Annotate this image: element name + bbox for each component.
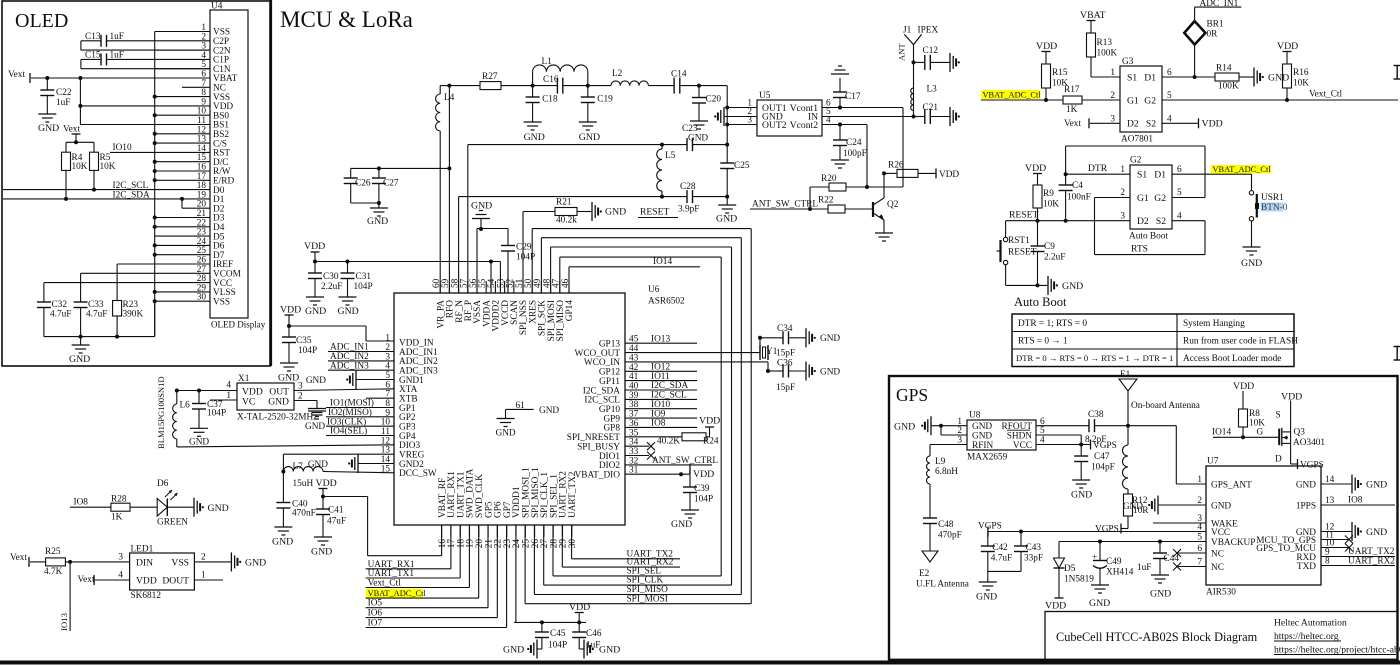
svg-text:R20: R20 <box>821 174 837 184</box>
svg-text:C17: C17 <box>845 92 861 102</box>
svg-text:C49: C49 <box>1106 557 1122 567</box>
svg-text:C26: C26 <box>355 179 371 189</box>
svg-text:GND: GND <box>539 406 559 416</box>
svg-text:R28: R28 <box>111 495 127 505</box>
svg-text:4: 4 <box>118 571 123 581</box>
svg-text:VCC: VCC <box>1013 441 1032 451</box>
svg-text:OLED Display: OLED Display <box>211 320 266 330</box>
svg-text:Heltec Automation: Heltec Automation <box>1274 618 1347 629</box>
svg-text:GND: GND <box>820 367 840 377</box>
svg-text:UART_TX2: UART_TX2 <box>1348 547 1395 557</box>
svg-text:GND: GND <box>716 214 737 225</box>
svg-text:D2: D2 <box>1127 119 1139 130</box>
svg-text:1uF: 1uF <box>110 50 124 60</box>
svg-text:G1: G1 <box>1127 95 1139 106</box>
svg-text:C31: C31 <box>356 272 372 282</box>
svg-text:U.FL Antenna: U.FL Antenna <box>916 580 969 590</box>
svg-text:1K: 1K <box>111 513 123 523</box>
svg-text:C30: C30 <box>323 272 339 282</box>
svg-text:GND: GND <box>688 134 708 144</box>
svg-text:DIN: DIN <box>136 557 153 568</box>
svg-text:4.7uF: 4.7uF <box>50 310 71 320</box>
svg-text:Vext: Vext <box>78 575 95 585</box>
svg-text:IO13: IO13 <box>651 334 670 344</box>
svg-text:VDD: VDD <box>1202 119 1223 130</box>
svg-text:4.7uF: 4.7uF <box>86 310 107 320</box>
svg-text:GND: GND <box>367 216 388 227</box>
svg-text:G2: G2 <box>1154 193 1166 204</box>
svg-text:GND: GND <box>306 376 326 386</box>
svg-text:R14: R14 <box>1216 64 1232 74</box>
svg-text:VDD: VDD <box>699 416 720 427</box>
svg-text:Run from user code in FLASH: Run from user code in FLASH <box>1183 336 1298 347</box>
svg-text:GND: GND <box>1089 598 1110 609</box>
svg-text:X-TAL-2520-32MHz: X-TAL-2520-32MHz <box>237 413 317 423</box>
svg-text:IO5: IO5 <box>368 599 383 609</box>
svg-text:100nF: 100nF <box>1067 193 1091 203</box>
svg-text:ANT: ANT <box>897 43 907 61</box>
svg-text:AO7801: AO7801 <box>1121 135 1153 145</box>
svg-text:VDD: VDD <box>1045 601 1066 612</box>
svg-text:GND: GND <box>894 421 915 432</box>
svg-text:Vext_Ctl: Vext_Ctl <box>1309 90 1342 100</box>
svg-text:MAX2659: MAX2659 <box>967 453 1008 463</box>
svg-text:C36: C36 <box>777 359 793 369</box>
svg-text:L1: L1 <box>542 57 553 67</box>
svg-text:40.2k: 40.2k <box>556 216 577 226</box>
svg-text:C32: C32 <box>52 300 68 310</box>
svg-text:DOUT: DOUT <box>162 575 189 586</box>
svg-text:VGPS: VGPS <box>978 522 1002 532</box>
svg-text:C12: C12 <box>923 46 939 56</box>
svg-text:104pF: 104pF <box>1091 463 1115 473</box>
svg-text:VDD: VDD <box>693 469 714 480</box>
svg-text:SHDN: SHDN <box>1007 431 1033 441</box>
svg-text:GND: GND <box>311 547 332 558</box>
svg-text:MCU & LoRa: MCU & LoRa <box>280 7 413 32</box>
svg-text:IO8: IO8 <box>74 498 89 508</box>
svg-text:VDD: VDD <box>136 575 157 586</box>
svg-text:GND: GND <box>471 201 492 212</box>
svg-text:GND: GND <box>1366 480 1387 491</box>
svg-text:R16: R16 <box>1293 68 1309 78</box>
svg-text:C41: C41 <box>328 506 344 516</box>
svg-text:NC: NC <box>1211 549 1224 559</box>
svg-text:GND: GND <box>1150 589 1171 600</box>
svg-text:https://heltec.org: https://heltec.org <box>1274 631 1339 642</box>
svg-text:R27: R27 <box>482 72 498 82</box>
svg-text:G: G <box>1257 428 1264 438</box>
svg-text:GND: GND <box>245 558 266 569</box>
svg-text:ASR6502: ASR6502 <box>648 297 685 307</box>
svg-text:DTR = 0 → RTS = 0 → RTS = 1 →: DTR = 0 → RTS = 0 → RTS = 1 → DTR = 1 <box>1016 353 1173 363</box>
svg-text:47uF: 47uF <box>327 517 346 527</box>
svg-text:4: 4 <box>1177 211 1182 221</box>
svg-text:SK6812: SK6812 <box>131 591 162 601</box>
svg-text:U5: U5 <box>759 91 771 101</box>
svg-text:D1: D1 <box>1144 72 1156 83</box>
svg-text:U8: U8 <box>969 411 981 421</box>
svg-text:GND: GND <box>503 645 524 656</box>
svg-text:VC: VC <box>242 397 255 408</box>
svg-text:DTR: DTR <box>1088 163 1108 174</box>
svg-text:C24: C24 <box>846 138 862 148</box>
svg-text:VDD: VDD <box>939 170 959 180</box>
svg-text:System Hanging: System Hanging <box>1183 319 1245 329</box>
svg-text:C28: C28 <box>680 182 696 192</box>
svg-text:G3: G3 <box>1122 57 1134 67</box>
svg-text:GND: GND <box>524 132 545 143</box>
svg-text:GND: GND <box>268 397 289 408</box>
svg-text:Auto Boot: Auto Boot <box>1129 232 1168 242</box>
svg-text:GND: GND <box>305 422 325 432</box>
svg-text:IO6: IO6 <box>368 609 383 619</box>
svg-text:C34: C34 <box>777 324 793 334</box>
svg-text:R26: R26 <box>888 161 904 171</box>
svg-text:C46: C46 <box>586 629 602 639</box>
svg-text:BTN-0: BTN-0 <box>1261 203 1288 213</box>
svg-text:1uF: 1uF <box>110 32 124 42</box>
svg-text:G2: G2 <box>1144 95 1156 106</box>
svg-text:0R: 0R <box>1207 30 1219 40</box>
svg-text:C39: C39 <box>694 484 710 494</box>
svg-text:GND: GND <box>1211 501 1231 511</box>
svg-text:IO7: IO7 <box>368 619 383 629</box>
svg-text:GND: GND <box>278 373 299 384</box>
svg-text:C29: C29 <box>516 243 532 253</box>
svg-text:VDD: VDD <box>1233 381 1254 392</box>
svg-text:L6: L6 <box>180 401 191 411</box>
svg-text:R25: R25 <box>45 547 61 557</box>
svg-text:VGPS: VGPS <box>1300 461 1324 471</box>
svg-text:+: + <box>1092 553 1097 563</box>
svg-text:VBAT_DIO: VBAT_DIO <box>575 471 621 481</box>
svg-text:C48: C48 <box>938 520 954 530</box>
svg-text:GND: GND <box>1268 73 1289 84</box>
svg-text:R23: R23 <box>123 300 139 310</box>
svg-text:GND: GND <box>976 592 997 603</box>
svg-text:UART_TX1: UART_TX1 <box>368 569 415 579</box>
svg-text:1uF: 1uF <box>1137 563 1151 573</box>
svg-text:30: 30 <box>568 539 578 549</box>
svg-text:VSS: VSS <box>171 557 189 568</box>
svg-text:C4: C4 <box>1072 181 1083 191</box>
svg-text:100K: 100K <box>1097 49 1118 59</box>
svg-text:IPEX: IPEX <box>918 26 939 36</box>
svg-text:Vext_Ctl: Vext_Ctl <box>368 579 401 589</box>
svg-text:C43: C43 <box>1026 543 1042 553</box>
svg-text:C16: C16 <box>543 75 559 85</box>
svg-text:IO4(SEL): IO4(SEL) <box>330 426 367 437</box>
svg-text:Vext: Vext <box>1064 119 1081 129</box>
svg-text:GPS_ANT: GPS_ANT <box>1211 480 1252 490</box>
svg-text:UART_RX2: UART_RX2 <box>1348 557 1395 567</box>
svg-text:C35: C35 <box>296 336 312 346</box>
svg-text:2.2uF: 2.2uF <box>321 282 342 292</box>
svg-text:ANT_SW_CTRL: ANT_SW_CTRL <box>752 200 818 210</box>
svg-text:C27: C27 <box>383 179 399 189</box>
svg-text:C18: C18 <box>542 95 558 105</box>
svg-text:GND: GND <box>820 334 840 344</box>
svg-text:GND: GND <box>1123 502 1143 512</box>
svg-text:10K: 10K <box>72 162 88 172</box>
svg-text:Access Boot Loader mode: Access Boot Loader mode <box>1183 354 1281 364</box>
svg-text:2.2uF: 2.2uF <box>1044 253 1065 263</box>
svg-text:C13: C13 <box>85 32 101 42</box>
svg-text:RFIN: RFIN <box>972 441 993 451</box>
svg-text:GND: GND <box>338 306 359 317</box>
svg-text:RST1: RST1 <box>1008 236 1030 246</box>
svg-text:IO13: IO13 <box>59 612 69 631</box>
svg-text:VDD: VDD <box>1277 41 1298 52</box>
svg-text:R24: R24 <box>703 436 719 446</box>
svg-text:10K: 10K <box>1293 79 1309 89</box>
svg-text:VDD: VDD <box>304 241 325 252</box>
svg-text:C15: C15 <box>85 50 101 60</box>
svg-text:Q3: Q3 <box>1294 428 1306 438</box>
svg-text:AIR530: AIR530 <box>1206 588 1236 598</box>
svg-text:BR1: BR1 <box>1207 20 1224 30</box>
svg-text:GND: GND <box>599 645 620 656</box>
svg-text:GND: GND <box>1071 490 1092 501</box>
svg-text:L3: L3 <box>927 85 938 95</box>
svg-text:D: D <box>1275 455 1282 465</box>
svg-text:Vcont2: Vcont2 <box>790 120 818 131</box>
svg-text:VSS: VSS <box>213 297 230 307</box>
svg-text:OLED: OLED <box>15 10 68 32</box>
svg-text:GPS: GPS <box>896 385 928 405</box>
svg-text:U7: U7 <box>1207 457 1219 467</box>
svg-text:3.9pF: 3.9pF <box>678 205 699 215</box>
svg-text:2: 2 <box>1120 188 1125 198</box>
svg-text:100pF: 100pF <box>843 149 867 159</box>
svg-text:10K: 10K <box>1043 200 1059 210</box>
svg-text:1uF: 1uF <box>586 641 600 651</box>
svg-text:D2: D2 <box>1137 216 1149 227</box>
svg-text:ADC_IN3: ADC_IN3 <box>330 361 369 371</box>
svg-text:C14: C14 <box>671 69 687 79</box>
svg-text:GND: GND <box>1366 527 1387 538</box>
svg-text:C23: C23 <box>682 124 698 134</box>
svg-text:1: 1 <box>201 571 206 581</box>
svg-text:1uF: 1uF <box>56 98 70 108</box>
svg-text:IO2(MISO): IO2(MISO) <box>328 407 372 418</box>
svg-text:U4: U4 <box>211 2 223 12</box>
svg-text:C19: C19 <box>597 95 613 105</box>
svg-text:GND: GND <box>671 519 692 530</box>
svg-text:VDD: VDD <box>1281 392 1302 403</box>
svg-text:RESET: RESET <box>1008 248 1037 258</box>
svg-text:100K: 100K <box>1218 82 1239 92</box>
svg-text:L7: L7 <box>293 462 304 472</box>
svg-text:VGPS: VGPS <box>1093 441 1117 451</box>
svg-text:D5: D5 <box>1064 564 1076 574</box>
svg-text:G2: G2 <box>1130 156 1142 166</box>
svg-text:VBACKUP: VBACKUP <box>1211 538 1255 548</box>
svg-text:GND: GND <box>1296 480 1316 490</box>
svg-text:GND: GND <box>189 438 209 448</box>
svg-text:E2: E2 <box>919 569 930 579</box>
svg-text:15uH: 15uH <box>293 479 314 489</box>
svg-text:C47: C47 <box>1094 452 1110 462</box>
svg-text:104P: 104P <box>354 282 373 292</box>
svg-text:390K: 390K <box>123 310 144 320</box>
svg-text:ADC_IN1: ADC_IN1 <box>1200 0 1239 9</box>
svg-text:C45: C45 <box>550 629 566 639</box>
svg-text:Vext: Vext <box>10 553 27 563</box>
svg-text:R21: R21 <box>556 198 572 208</box>
svg-text:X1: X1 <box>238 374 250 384</box>
svg-text:C38: C38 <box>1088 410 1104 420</box>
svg-text:VDD: VDD <box>569 602 590 613</box>
svg-text:E1: E1 <box>1120 370 1131 380</box>
svg-text:RESET: RESET <box>1009 210 1038 221</box>
svg-text:40.2K: 40.2K <box>657 436 680 446</box>
svg-text:USR1: USR1 <box>1261 193 1284 203</box>
svg-text:CubeCell HTCC-AB02S Block Diag: CubeCell HTCC-AB02S Block Diagram <box>1056 630 1258 644</box>
svg-text:AO3401: AO3401 <box>1293 438 1325 448</box>
svg-text:SPI_MOSI: SPI_MOSI <box>627 594 668 604</box>
svg-text:R17: R17 <box>1064 85 1080 95</box>
svg-text:GND: GND <box>208 503 229 514</box>
svg-text:1PPS: 1PPS <box>1296 501 1316 511</box>
svg-text:IO14: IO14 <box>1212 428 1231 438</box>
svg-text:RESET: RESET <box>640 207 669 218</box>
svg-text:IO10: IO10 <box>113 143 132 153</box>
svg-text:C42: C42 <box>992 543 1008 553</box>
svg-text:1N5819: 1N5819 <box>1064 575 1094 585</box>
svg-text:R15: R15 <box>1052 68 1068 78</box>
svg-text:D6: D6 <box>157 479 169 489</box>
svg-text:S2: S2 <box>1146 119 1156 130</box>
svg-text:1: 1 <box>1120 165 1125 175</box>
svg-text:UART_TX2: UART_TX2 <box>568 471 578 518</box>
svg-text:Vext: Vext <box>8 70 25 80</box>
svg-text:4: 4 <box>226 381 231 391</box>
svg-text:C9: C9 <box>1044 242 1055 252</box>
svg-text:VDD: VDD <box>316 478 337 489</box>
svg-text:15pF: 15pF <box>776 349 795 359</box>
svg-text:S1: S1 <box>1127 72 1137 83</box>
svg-text:R9: R9 <box>1043 189 1054 199</box>
svg-text:VBAT_ADC_Ctl: VBAT_ADC_Ctl <box>368 589 427 598</box>
svg-text:10K: 10K <box>100 162 116 172</box>
svg-text:https://heltec.org/project/htc: https://heltec.org/project/htcc-ab02s <box>1274 645 1400 656</box>
svg-text:470pF: 470pF <box>938 531 962 541</box>
svg-text:GND: GND <box>69 354 90 365</box>
svg-text:VGPS: VGPS <box>1095 525 1119 535</box>
svg-text:C44: C44 <box>1164 554 1180 564</box>
svg-text:GP14: GP14 <box>565 300 575 322</box>
svg-text:C21: C21 <box>923 103 939 113</box>
svg-text:1K: 1K <box>1066 105 1078 115</box>
svg-text:C33: C33 <box>88 300 104 310</box>
svg-text:IO14: IO14 <box>653 257 672 267</box>
svg-text:NC: NC <box>1211 563 1224 573</box>
svg-text:DTR = 1; RTS = 0: DTR = 1; RTS = 0 <box>1018 319 1087 329</box>
svg-text:3: 3 <box>1120 211 1125 221</box>
svg-text:J1: J1 <box>903 26 912 36</box>
svg-text:TXD: TXD <box>1297 562 1316 572</box>
svg-text:RTS: RTS <box>1131 244 1148 255</box>
svg-text:104P: 104P <box>207 409 226 419</box>
svg-text:OUT2: OUT2 <box>762 120 787 131</box>
svg-text:GND: GND <box>1062 281 1083 292</box>
svg-text:ANT_SW_CTRL: ANT_SW_CTRL <box>652 456 718 466</box>
svg-text:GND: GND <box>38 123 59 134</box>
svg-text:3: 3 <box>118 553 123 563</box>
svg-text:GND: GND <box>579 132 600 143</box>
svg-text:S1: S1 <box>1137 170 1147 181</box>
svg-text:GND: GND <box>605 207 626 218</box>
svg-text:VDD: VDD <box>1036 41 1057 52</box>
svg-text:Q2: Q2 <box>887 200 899 210</box>
svg-text:DCC_SW: DCC_SW <box>399 469 437 479</box>
svg-text:VBAT_ADC_Ctl: VBAT_ADC_Ctl <box>1213 165 1272 174</box>
svg-text:GND: GND <box>305 306 326 317</box>
svg-text:VDD: VDD <box>280 305 301 316</box>
svg-text:R13: R13 <box>1097 38 1113 48</box>
svg-text:On-board Antenna: On-board Antenna <box>1131 401 1200 411</box>
svg-text:GREEN: GREEN <box>157 518 188 528</box>
svg-text:GND: GND <box>972 431 992 441</box>
svg-text:BLM15PG100SN1D: BLM15PG100SN1D <box>156 376 166 449</box>
svg-text:RTS = 0 → 1: RTS = 0 → 1 <box>1018 337 1068 347</box>
svg-text:Auto Boot: Auto Boot <box>1014 295 1067 309</box>
svg-text:G1: G1 <box>1137 193 1149 204</box>
svg-text:U6: U6 <box>648 285 660 295</box>
svg-text:4.7K: 4.7K <box>44 567 63 577</box>
svg-text:C22: C22 <box>56 88 72 98</box>
svg-text:VBAT_ADC_Ctl: VBAT_ADC_Ctl <box>983 90 1042 99</box>
svg-text:IO8: IO8 <box>1348 496 1363 506</box>
svg-text:LED1: LED1 <box>131 545 154 555</box>
svg-text:VBAT: VBAT <box>1080 10 1106 21</box>
svg-text:15pF: 15pF <box>776 383 795 393</box>
svg-text:IO8: IO8 <box>651 419 666 429</box>
svg-text:2: 2 <box>201 553 206 563</box>
svg-text:GND: GND <box>272 537 293 548</box>
svg-text:S2: S2 <box>1156 216 1166 227</box>
svg-text:C20: C20 <box>706 95 722 105</box>
svg-text:104P: 104P <box>694 495 713 505</box>
svg-text:D1: D1 <box>1154 170 1166 181</box>
svg-text:33pF: 33pF <box>1024 554 1043 564</box>
svg-text:6: 6 <box>1177 165 1182 175</box>
svg-text:L2: L2 <box>612 69 623 79</box>
svg-text:R22: R22 <box>818 196 834 206</box>
svg-text:VDD: VDD <box>1025 163 1046 174</box>
svg-text:4.7uF: 4.7uF <box>991 554 1012 564</box>
svg-text:104P: 104P <box>548 641 567 651</box>
svg-text:S: S <box>1276 411 1281 421</box>
svg-text:C25: C25 <box>734 161 750 171</box>
svg-text:GND: GND <box>496 429 516 439</box>
svg-text:L9: L9 <box>935 457 946 467</box>
svg-text:L5: L5 <box>665 151 676 161</box>
svg-text:6.8nH: 6.8nH <box>935 467 958 477</box>
svg-text:104P: 104P <box>298 346 317 356</box>
svg-text:5: 5 <box>1177 188 1182 198</box>
svg-text:GND: GND <box>1241 258 1262 269</box>
svg-text:470nF: 470nF <box>292 509 316 519</box>
svg-text:Vext: Vext <box>63 125 80 135</box>
svg-text:GND: GND <box>308 460 328 470</box>
svg-text:VCC: VCC <box>1211 528 1230 538</box>
svg-text:XH414: XH414 <box>1106 568 1134 578</box>
svg-text:R8: R8 <box>1249 409 1260 419</box>
